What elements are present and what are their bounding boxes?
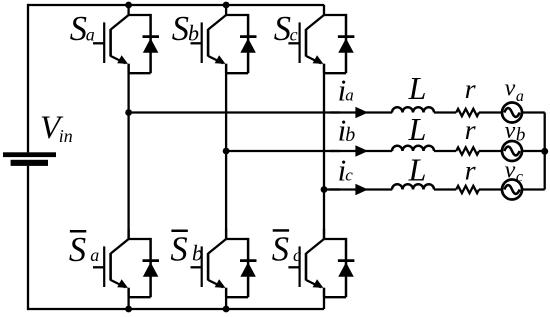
svg-text:L: L [408, 151, 427, 187]
svg-text:c: c [293, 245, 301, 265]
svg-text:b: b [345, 124, 355, 146]
svg-text:S: S [172, 10, 189, 48]
svg-text:b: b [192, 241, 203, 266]
svg-text:a: a [516, 88, 524, 105]
svg-text:S: S [272, 231, 289, 269]
svg-text:r: r [465, 115, 477, 145]
svg-text:r: r [465, 155, 477, 185]
svg-text:r: r [465, 74, 477, 104]
svg-text:a: a [345, 86, 354, 105]
svg-text:c: c [290, 24, 298, 44]
svg-text:c: c [345, 166, 353, 185]
svg-text:S: S [170, 231, 187, 269]
svg-text:L: L [408, 111, 427, 147]
svg-text:S: S [274, 10, 291, 48]
svg-text:v: v [505, 118, 516, 144]
svg-text:b: b [188, 20, 199, 45]
svg-text:b: b [516, 124, 526, 145]
svg-text:v: v [505, 157, 516, 183]
svg-text:a: a [86, 24, 95, 44]
svg-text:c: c [516, 168, 523, 185]
svg-text:v: v [505, 76, 516, 102]
svg-text:S: S [69, 231, 86, 269]
svg-text:in: in [59, 126, 73, 146]
svg-text:a: a [90, 245, 99, 265]
svg-text:S: S [70, 10, 87, 48]
svg-text:L: L [408, 70, 427, 106]
